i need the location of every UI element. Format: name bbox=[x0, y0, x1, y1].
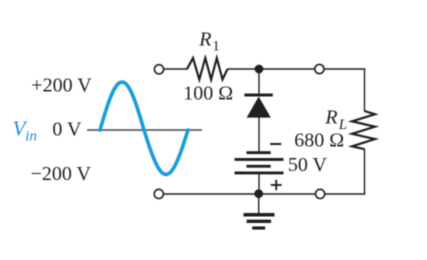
wire diode branch upper bbox=[258, 69, 260, 95]
label RL bbox=[324, 106, 347, 133]
svg-text:1: 1 bbox=[212, 38, 220, 54]
svg-text:R: R bbox=[198, 28, 211, 50]
battery 50 V plate 4 long bbox=[235, 172, 284, 175]
svg-text:−200 V: −200 V bbox=[31, 163, 92, 185]
battery 50 V plate 1 short bbox=[247, 151, 271, 154]
waveform Vin sine bbox=[100, 82, 188, 175]
node junction top bbox=[255, 65, 264, 74]
battery minus sign bbox=[270, 143, 281, 145]
ground bbox=[244, 213, 275, 230]
node junction bottom bbox=[254, 189, 263, 198]
terminal output bottom bbox=[316, 189, 325, 198]
wire battery to bottom node bbox=[258, 174, 260, 194]
terminal input top bbox=[154, 65, 163, 74]
resistor RL bbox=[352, 111, 375, 149]
svg-text:680 Ω: 680 Ω bbox=[294, 130, 344, 152]
diode D1 bbox=[247, 97, 271, 118]
terminal output top bbox=[315, 64, 324, 73]
battery 50 V plate 3 short bbox=[247, 165, 271, 168]
svg-text:R: R bbox=[324, 106, 337, 128]
node Vin label bbox=[13, 116, 37, 144]
svg-text:0 V: 0 V bbox=[52, 119, 82, 141]
wire right vertical lower bbox=[364, 149, 366, 195]
wire bottom from input terminal to bottom-right corner bbox=[164, 193, 366, 195]
resistor R1 bbox=[187, 58, 228, 80]
wire diode to battery bbox=[258, 117, 260, 152]
waveform axis bbox=[87, 129, 202, 131]
svg-text:in: in bbox=[25, 129, 37, 145]
wire top-left from input terminal to R1 bbox=[164, 68, 189, 70]
battery plus sign bbox=[271, 180, 282, 190]
diode D1 cathode bar bbox=[244, 94, 272, 97]
terminal input bottom bbox=[154, 189, 163, 198]
svg-text:50 V: 50 V bbox=[288, 154, 328, 176]
wire ground stem bbox=[258, 194, 260, 214]
label R1 bbox=[198, 28, 220, 54]
wire top from R1 to top-right corner bbox=[228, 68, 366, 70]
svg-text:+200 V: +200 V bbox=[31, 75, 92, 97]
battery 50 V plate 2 long bbox=[235, 158, 284, 161]
wire right vertical upper bbox=[364, 68, 366, 111]
svg-text:100 Ω: 100 Ω bbox=[183, 83, 233, 105]
